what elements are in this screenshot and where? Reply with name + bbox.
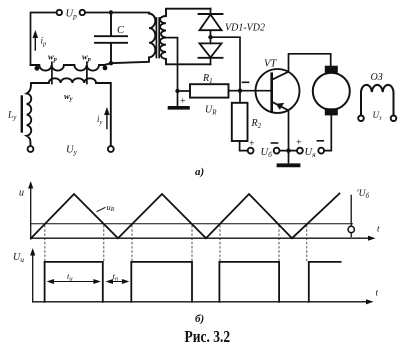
svg-text:VD1-VD2: VD1-VD2 — [225, 23, 265, 34]
svg-text:Uб: Uб — [261, 147, 273, 159]
wire emitter down — [288, 110, 290, 150]
Ub marker circle — [348, 226, 354, 232]
coil OZ — [361, 85, 394, 116]
svg-text:wp: wp — [48, 52, 58, 64]
transformer T core — [156, 18, 159, 58]
svg-text:VT: VT — [264, 59, 277, 70]
pulse 3 — [219, 262, 279, 302]
dashed connectors — [45, 226, 307, 262]
plot a x-axis — [31, 237, 372, 239]
svg-text:tи: tи — [67, 271, 73, 283]
label uR leader — [97, 208, 105, 212]
svg-text:R2: R2 — [251, 118, 262, 130]
svg-text:tп: tп — [113, 271, 119, 283]
core tick wp2 — [86, 62, 88, 83]
diode VD2 — [210, 37, 212, 43]
pulse 1 — [45, 262, 103, 302]
triangle wave uR — [31, 194, 340, 239]
terminal Uya plus — [297, 148, 303, 154]
svg-text:Uз: Uз — [373, 110, 383, 122]
svg-text:ОЗ: ОЗ — [371, 72, 383, 83]
junction dot top rail — [109, 10, 113, 14]
terminal Up left — [57, 10, 62, 15]
ground emitter — [288, 151, 290, 163]
pulse 4 — [309, 262, 341, 302]
svg-text:′Uб: ′Uб — [357, 189, 370, 200]
svg-text:ip: ip — [41, 36, 48, 48]
svg-text:б): б) — [195, 313, 204, 325]
plot b x-axis — [33, 301, 370, 303]
wire diode junction to minus node — [213, 37, 240, 90]
wire wp line — [31, 63, 112, 70]
motor M body — [313, 73, 350, 110]
junction dot diodes — [208, 35, 212, 39]
svg-text:Uя: Uя — [305, 147, 317, 159]
svg-text:Рис. 3.2: Рис. 3.2 — [185, 328, 231, 347]
ground left — [177, 91, 179, 107]
wire motor bottom — [324, 115, 331, 150]
label minus Ub — [272, 142, 278, 144]
pulse 2 — [131, 262, 192, 302]
svg-text:Lу: Lу — [7, 111, 17, 122]
svg-text:UR: UR — [205, 105, 217, 117]
transformer T primary winding — [111, 14, 155, 64]
terminal Uy right — [108, 146, 114, 152]
inductor Ly core — [21, 97, 23, 132]
resistor R1 — [190, 84, 229, 97]
wire wy winding — [31, 78, 111, 146]
label minus Uya — [317, 140, 323, 142]
junction dot plus node — [175, 89, 179, 93]
svg-text:+: + — [296, 138, 302, 149]
wire top rail to transformer — [85, 12, 149, 14]
terminal Up right — [80, 10, 85, 15]
svg-text:+: + — [180, 96, 186, 107]
junction dot emitter node — [286, 148, 291, 153]
terminal Uz left — [358, 116, 364, 122]
plot b y-axis — [32, 251, 34, 302]
polarity dot wp right — [103, 66, 108, 71]
svg-text:C: C — [117, 25, 125, 36]
svg-text:wp: wp — [82, 52, 92, 64]
wire emitter node — [280, 150, 298, 152]
svg-text:Uу: Uу — [66, 145, 78, 157]
svg-text:u: u — [19, 188, 24, 199]
capacitor C — [95, 13, 127, 64]
inductor Ly — [27, 83, 32, 146]
svg-text:uR: uR — [107, 202, 115, 213]
svg-text:а): а) — [195, 166, 204, 178]
wire collector to motor — [289, 54, 331, 72]
arrow iy — [106, 111, 108, 129]
svg-text:wу: wу — [64, 91, 73, 103]
arrow ti — [49, 281, 99, 283]
arrow tp — [108, 281, 127, 283]
level line Ub — [31, 223, 353, 225]
svg-text:Up: Up — [66, 9, 78, 21]
core tick wp1 — [51, 62, 53, 83]
svg-text:iу: iу — [97, 114, 103, 126]
junction dot cap bottom — [109, 61, 113, 65]
caption — [185, 328, 231, 347]
svg-text:t: t — [376, 288, 379, 298]
transformer T secondary winding — [160, 9, 211, 65]
resistor R2 — [232, 103, 248, 141]
svg-text:+: + — [249, 139, 255, 150]
terminal Ub minus — [274, 148, 280, 154]
label minus R1 — [243, 81, 249, 83]
svg-text:t: t — [377, 224, 380, 234]
wire left loop top — [31, 13, 57, 66]
diode VD1 — [210, 9, 212, 14]
terminal Uy left — [28, 146, 34, 152]
motor M brush bottom — [325, 108, 338, 115]
svg-text:Uи: Uи — [13, 252, 24, 264]
terminal Uya minus — [318, 148, 324, 154]
Ub marker line — [350, 195, 352, 226]
plot a y-axis — [30, 184, 32, 239]
wire secondary center tap — [166, 38, 178, 91]
wire base lead — [240, 90, 272, 92]
junction dot minus node — [238, 89, 242, 93]
terminal Uz right — [391, 116, 397, 122]
polarity dot wp left — [35, 66, 40, 71]
motor M brush top — [325, 66, 338, 73]
svg-text:R1: R1 — [202, 73, 213, 85]
arrow ip — [34, 34, 36, 50]
terminal Ub plus — [248, 148, 254, 154]
transistor VT — [256, 69, 300, 113]
